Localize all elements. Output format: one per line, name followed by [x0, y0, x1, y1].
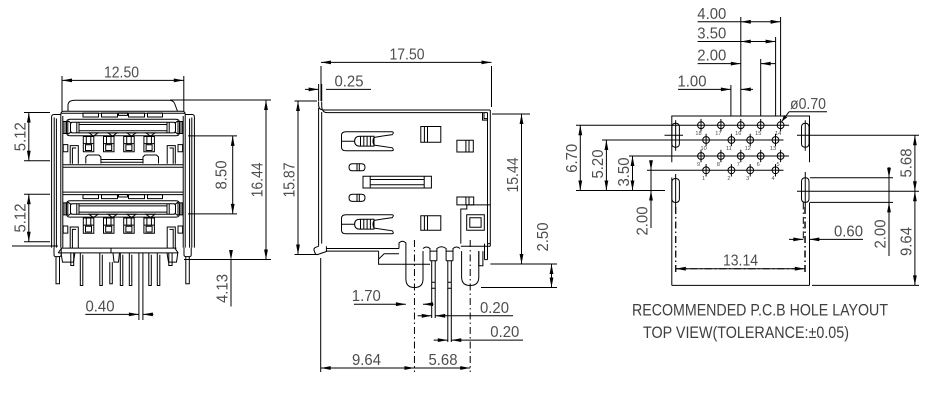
dimension 9.64 right — [812, 191, 919, 285]
hole 3 — [746, 164, 753, 182]
dimension diameter 0.70 — [782, 96, 827, 122]
hole 10 — [700, 134, 709, 152]
thin pins — [80, 253, 160, 286]
thin pin B extension — [448, 288, 452, 342]
svg-text:13: 13 — [770, 146, 776, 152]
wing foot left — [54, 248, 61, 257]
svg-text:2.00: 2.00 — [635, 206, 652, 235]
base block — [379, 247, 460, 264]
big pin 1 — [406, 249, 423, 288]
hole row 2 centerline — [698, 139, 784, 141]
port 2 tab row — [83, 195, 163, 199]
small oval lower — [349, 194, 365, 201]
thin pin B — [448, 261, 452, 288]
fork latch top — [342, 132, 394, 151]
side body outline — [319, 102, 491, 247]
dimension 6.70 — [564, 125, 672, 190]
hole 2 — [727, 164, 734, 182]
hole 6 — [757, 150, 764, 168]
svg-text:ø0.70: ø0.70 — [790, 96, 826, 113]
svg-text:1.00: 1.00 — [678, 73, 707, 90]
hole 15 — [755, 119, 764, 137]
hole 18 — [695, 119, 704, 137]
dimension 0.25 — [305, 73, 371, 101]
SIDE VIEW GROUP — [282, 46, 557, 372]
dimension 16.44 — [170, 100, 271, 260]
svg-text:4: 4 — [771, 176, 774, 182]
mounting slot top-right — [797, 120, 819, 150]
hole 17 — [715, 119, 724, 137]
svg-text:5.20: 5.20 — [590, 149, 607, 178]
svg-text:9.64: 9.64 — [899, 227, 916, 256]
hole 16 — [735, 119, 744, 137]
wing pin left — [56, 257, 60, 284]
svg-text:5.68: 5.68 — [899, 149, 916, 178]
port 1 tab row — [83, 113, 163, 117]
svg-text:15.44: 15.44 — [505, 157, 522, 192]
svg-text:0.20: 0.20 — [480, 300, 509, 317]
hole 9 — [697, 150, 704, 168]
thin pin A — [432, 261, 436, 288]
dimension 0.20 second — [434, 324, 523, 342]
svg-text:2: 2 — [727, 176, 730, 182]
bottom right corner block — [461, 205, 491, 244]
dimension 5.20 — [590, 140, 698, 191]
svg-text:0.25: 0.25 — [335, 73, 364, 90]
hole row 4 centerline — [698, 169, 784, 171]
thin pin A extension — [432, 288, 436, 318]
port 2 side contacts — [63, 203, 182, 233]
hole row 1 centerline — [672, 124, 789, 126]
svg-text:RECOMMENDED P.C.B HOLE LAYOUT: RECOMMENDED P.C.B HOLE LAYOUT — [632, 302, 888, 320]
dimension 0.20 first — [418, 300, 513, 318]
lower right rect — [421, 216, 441, 231]
dimension 5.68 — [414, 352, 470, 370]
dimension 2.50 — [481, 222, 557, 287]
port 1 lower posts — [70, 146, 175, 164]
dimension 2.00 right — [810, 167, 893, 256]
port 1 side contacts — [63, 122, 182, 152]
right bottom edge — [461, 244, 491, 247]
svg-text:3.50: 3.50 — [616, 157, 633, 186]
dimension 5.12 upper port height — [13, 113, 51, 161]
dimension 2.00 top — [697, 48, 775, 66]
mounting slot top-left — [665, 120, 684, 150]
dimension 1.70 — [352, 288, 434, 306]
svg-text:0.40: 0.40 — [86, 298, 115, 315]
dimension 5.12 lower port height — [13, 194, 51, 242]
pin 2 centerline — [469, 240, 471, 372]
left reference line bottom — [12, 245, 58, 247]
port 1 mouth — [67, 119, 180, 135]
svg-text:2.00: 2.00 — [873, 219, 890, 248]
base feet — [61, 253, 178, 262]
port 1 tongue — [68, 121, 178, 134]
dimension 5.68 right — [811, 135, 919, 191]
svg-text:9: 9 — [697, 162, 700, 168]
port 1 bottom blocks — [86, 155, 159, 164]
svg-text:17.50: 17.50 — [390, 46, 425, 63]
port 2 contact notches — [89, 214, 155, 217]
hole 7 — [737, 150, 744, 168]
svg-text:TOP VIEW(TOLERANCE:±0.05): TOP VIEW(TOLERANCE:±0.05) — [643, 324, 849, 342]
hole 12 — [745, 134, 754, 152]
column extension lines — [731, 17, 781, 116]
svg-text:12.50: 12.50 — [104, 64, 139, 81]
svg-text:1: 1 — [702, 176, 705, 182]
svg-text:3: 3 — [746, 176, 749, 182]
dimension 1.00 — [678, 73, 754, 91]
dimension 15.87 — [282, 101, 317, 255]
fork latch bottom — [342, 215, 394, 234]
base band — [58, 248, 178, 253]
port 1 contact fingers — [83, 137, 154, 152]
dimension 8.50 — [188, 136, 237, 214]
hole 11 — [726, 134, 735, 152]
right foot — [479, 244, 488, 266]
center bar — [363, 176, 431, 188]
svg-text:5.12: 5.12 — [13, 122, 30, 151]
port 2 top shell line — [63, 192, 183, 195]
dimension 9.64 — [321, 258, 415, 372]
holes row 1: 18 17 16 15 14 — [695, 119, 784, 137]
hole 13 — [770, 134, 779, 152]
dimension 3.50 left — [616, 156, 693, 191]
svg-text:4.13: 4.13 — [215, 274, 232, 303]
svg-text:5.12: 5.12 — [13, 204, 30, 233]
dimension 15.44 — [492, 114, 530, 264]
svg-text:9.64: 9.64 — [352, 352, 381, 369]
svg-text:0.60: 0.60 — [834, 223, 863, 240]
dimension 17.50 — [321, 46, 492, 107]
mounting slot bottom-left — [672, 174, 680, 272]
svg-text:6.70: 6.70 — [564, 143, 581, 172]
svg-text:8.50: 8.50 — [214, 160, 231, 189]
bottom ledge — [326, 241, 406, 251]
dimension 0.60 — [789, 223, 863, 241]
wing foot right — [184, 248, 191, 257]
holes row 4: 1 2 3 4 — [702, 164, 779, 182]
pin 1 centerline — [413, 240, 415, 372]
dimension 2.00 left — [635, 160, 698, 235]
port 2 lower posts — [70, 227, 175, 248]
upper right rect — [421, 127, 441, 143]
top lid — [68, 100, 177, 111]
svg-text:7: 7 — [737, 162, 740, 168]
dimension 4.00 — [697, 6, 780, 24]
svg-text:1.70: 1.70 — [352, 288, 381, 305]
right wing — [185, 115, 194, 248]
dimension 4.13 — [215, 250, 233, 307]
holes row 2: 10 11 12 13 — [700, 134, 778, 152]
PCB VIEW GROUP — [564, 6, 919, 342]
center long pin — [139, 253, 143, 320]
svg-text:6: 6 — [757, 162, 760, 168]
svg-text:3.50: 3.50 — [697, 26, 726, 43]
holes row 3: 9 8 7 6 5 — [697, 150, 784, 168]
port 1 bottom shell line — [63, 165, 183, 168]
svg-text:5.68: 5.68 — [429, 352, 458, 369]
shell outline — [61, 111, 185, 247]
hole 5 — [777, 150, 784, 168]
left wing — [52, 115, 61, 248]
FRONT VIEW GROUP — [12, 64, 271, 320]
svg-text:2.50: 2.50 — [535, 222, 552, 251]
hole row 3 centerline — [693, 155, 789, 157]
dimension 12.50 top width — [62, 64, 184, 111]
svg-text:15: 15 — [755, 131, 761, 137]
svg-text:8: 8 — [717, 162, 720, 168]
svg-text:15.87: 15.87 — [282, 163, 299, 198]
hole 4 — [771, 164, 778, 182]
svg-text:4.00: 4.00 — [697, 6, 726, 23]
svg-text:2.00: 2.00 — [697, 48, 726, 65]
small oval upper — [349, 164, 365, 171]
port 2 contact fingers — [83, 218, 154, 233]
svg-text:13.14: 13.14 — [723, 253, 758, 270]
svg-text:16.44: 16.44 — [250, 162, 267, 197]
port 2 tongue — [68, 202, 178, 215]
left foot — [314, 246, 326, 254]
port 2 mouth — [67, 201, 180, 217]
svg-text:0.20: 0.20 — [490, 324, 519, 341]
svg-text:17: 17 — [715, 131, 721, 137]
right small rect above block — [457, 197, 474, 205]
dimension 3.50 — [697, 26, 775, 44]
svg-text:16: 16 — [735, 131, 741, 137]
stub pins — [71, 253, 172, 266]
svg-text:11: 11 — [726, 146, 732, 152]
port 1 contact notches — [89, 133, 155, 136]
big pin 2 — [462, 251, 479, 285]
hole 1 — [702, 164, 709, 182]
dimension 0.40 center pin width — [85, 298, 153, 316]
mounting slot bottom-right — [797, 172, 811, 272]
svg-text:12: 12 — [745, 146, 751, 152]
svg-text:18: 18 — [695, 131, 701, 137]
wing pin right — [186, 257, 190, 284]
pcb outline — [672, 116, 810, 285]
top right corner block — [483, 113, 488, 121]
mid right rect — [457, 140, 473, 152]
hole 8 — [717, 150, 724, 168]
dimension 13.14 — [676, 207, 805, 272]
hole 14 — [775, 119, 784, 137]
